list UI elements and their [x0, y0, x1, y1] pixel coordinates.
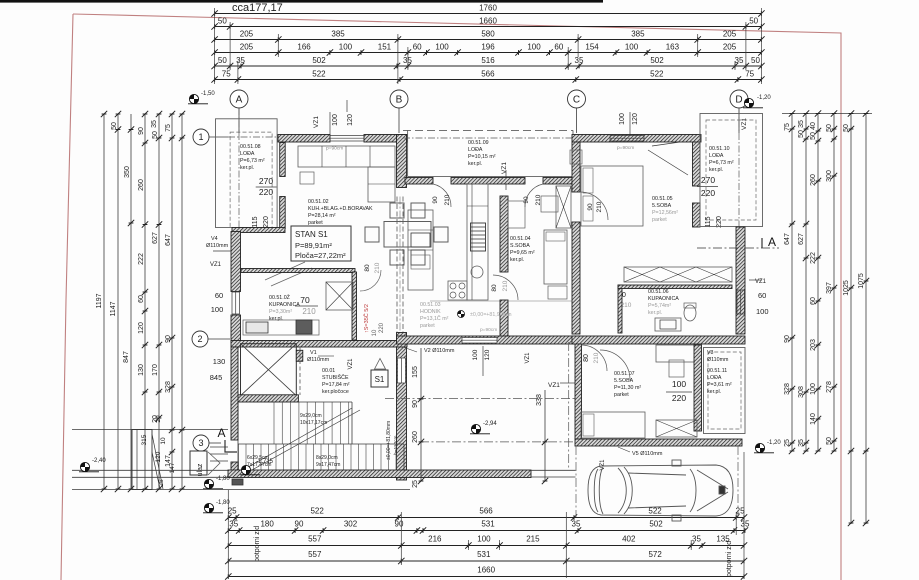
svg-text:LOĐA: LOĐA — [468, 147, 483, 153]
loggia 00.51.09 outline — [407, 130, 409, 176]
svg-text:P=12,56m²: P=12,56m² — [652, 210, 678, 216]
elevator shaft — [241, 344, 297, 396]
bathroom door arc apt1 — [360, 270, 381, 291]
svg-text:3: 3 — [198, 438, 203, 448]
bath partition — [618, 285, 622, 333]
svg-text:parket: parket — [614, 392, 629, 398]
svg-text:35: 35 — [575, 56, 584, 65]
svg-text:90: 90 — [784, 335, 791, 343]
svg-text:00.51.11: 00.51.11 — [707, 368, 727, 374]
svg-text:Ø110mm: Ø110mm — [307, 357, 330, 363]
svg-text:P=17,84 m²: P=17,84 m² — [322, 382, 350, 388]
svg-text:A: A — [768, 235, 776, 249]
svg-text:VZ1: VZ1 — [741, 118, 748, 130]
left dimension block — [103, 114, 105, 489]
svg-text:196: 196 — [481, 43, 495, 52]
svg-text:522: 522 — [648, 507, 662, 516]
svg-text:25: 25 — [228, 507, 237, 516]
dim row 50/1660/50 — [215, 26, 762, 28]
svg-text:1025: 1025 — [843, 280, 850, 296]
terrace edge lines — [531, 469, 576, 471]
svg-text:Ø110mm: Ø110mm — [206, 243, 229, 249]
bottom dim row 35/180/90/302/531/502/35 — [228, 530, 745, 532]
svg-text:75: 75 — [745, 70, 754, 79]
terrace dash-dot line 1 — [385, 398, 575, 400]
loggia 00.51.11 — [704, 348, 746, 434]
door swing diagonals living room — [265, 262, 305, 280]
elevator south wall hatched — [237, 395, 298, 402]
svg-text:VZ1: VZ1 — [348, 358, 354, 370]
svg-text:50: 50 — [826, 437, 833, 445]
svg-text:VZ1: VZ1 — [525, 352, 531, 364]
grid axis markers 1 2 3 — [193, 129, 209, 145]
svg-text:C: C — [573, 95, 580, 106]
svg-text:100: 100 — [435, 43, 449, 52]
svg-text:50: 50 — [751, 56, 760, 65]
svg-text:140: 140 — [810, 413, 817, 425]
entry steps — [232, 479, 243, 485]
svg-text:P=3,30m²: P=3,30m² — [269, 309, 292, 315]
svg-text:90: 90 — [412, 400, 419, 408]
window in east wall — [737, 290, 745, 314]
svg-text:90: 90 — [295, 520, 304, 529]
svg-text:LOĐA: LOĐA — [709, 153, 724, 159]
svg-text:100: 100 — [211, 305, 224, 314]
svg-text:VZ1: VZ1 — [501, 162, 508, 174]
svg-text:338: 338 — [536, 394, 543, 406]
svg-text:350: 350 — [124, 166, 131, 178]
svg-text:220: 220 — [672, 393, 686, 403]
benchmark -2.40 far left — [79, 462, 99, 471]
wall right of loggia 08 — [280, 143, 286, 177]
svg-text:P=10,15 m²: P=10,15 m² — [468, 154, 496, 160]
svg-text:50: 50 — [152, 131, 159, 139]
terrace dash-dot line 2 — [420, 441, 575, 443]
svg-text:V5 Ø110mm: V5 Ø110mm — [632, 451, 663, 457]
svg-text:522: 522 — [310, 507, 324, 516]
svg-text:302: 302 — [344, 520, 358, 529]
svg-text:260: 260 — [412, 431, 419, 443]
east outer wall — [736, 227, 745, 334]
svg-text:557: 557 — [308, 550, 322, 559]
svg-text:531: 531 — [477, 550, 491, 559]
svg-text:80: 80 — [583, 354, 590, 362]
svg-text:ker.pl.: ker.pl. — [648, 310, 662, 316]
svg-text:130: 130 — [213, 357, 226, 366]
svg-text:75: 75 — [165, 124, 172, 132]
svg-text:1660: 1660 — [479, 17, 497, 26]
svg-text:210: 210 — [444, 194, 451, 205]
svg-text:↑S=35Č 5/2: ↑S=35Č 5/2 — [363, 304, 370, 333]
svg-text:25: 25 — [158, 479, 165, 487]
svg-text:216: 216 — [428, 535, 442, 544]
svg-text:151: 151 — [378, 43, 392, 52]
svg-text:25: 25 — [412, 480, 419, 488]
svg-text:A: A — [217, 426, 225, 440]
svg-text:220: 220 — [263, 216, 270, 228]
diag lines (door swing) top — [648, 150, 688, 175]
bottom wall east wing — [572, 336, 745, 344]
grid line A — [238, 108, 240, 230]
svg-text:LOĐA: LOĐA — [240, 151, 255, 157]
svg-text:1660: 1660 — [477, 566, 495, 575]
svg-text:KUPAONICA: KUPAONICA — [648, 296, 679, 302]
svg-text:10x17,17cm: 10x17,17cm — [300, 420, 327, 426]
window in west wall 60/100 — [232, 292, 240, 314]
svg-text:100: 100 — [672, 379, 686, 389]
svg-text:KUH.+BLAG.+D.BORAVAK: KUH.+BLAG.+D.BORAVAK — [308, 206, 373, 212]
svg-text:20: 20 — [155, 415, 162, 423]
svg-text:60: 60 — [554, 43, 563, 52]
svg-text:50: 50 — [218, 17, 227, 26]
svg-text:100: 100 — [477, 535, 491, 544]
svg-text:p=90cm: p=90cm — [617, 145, 634, 151]
svg-text:S.SOBA: S.SOBA — [510, 243, 530, 249]
wardrobe X s.soba04 — [556, 186, 571, 228]
elevator east piers — [296, 350, 303, 361]
svg-text:ker.pl.: ker.pl. — [468, 161, 482, 167]
dim row 50/35/502/35/516/35/502/35/50 — [215, 65, 762, 67]
svg-text:P=13,1Č m²: P=13,1Č m² — [420, 315, 449, 322]
entrance ulaz — [190, 451, 207, 475]
svg-text:402: 402 — [622, 535, 636, 544]
svg-text:00.51.04: 00.51.04 — [510, 236, 531, 242]
svg-text:502: 502 — [650, 56, 664, 65]
svg-text:35: 35 — [798, 120, 805, 128]
svg-text:ker.pl.: ker.pl. — [707, 389, 721, 395]
svg-text:-1,715: -1,715 — [256, 459, 274, 465]
wall below loggia 09 — [405, 178, 433, 185]
svg-text:328: 328 — [784, 383, 791, 395]
svg-text:cca177,17: cca177,17 — [232, 2, 283, 14]
car body — [588, 460, 733, 521]
closet with X — [624, 267, 732, 282]
door arc east wing — [580, 192, 608, 220]
svg-text:210: 210 — [596, 201, 603, 212]
elevator door dashed — [299, 347, 301, 395]
svg-text:502: 502 — [649, 520, 663, 529]
small table — [300, 172, 314, 184]
svg-text:00.51.07: 00.51.07 — [614, 371, 635, 377]
doors 90/210 from loggia — [433, 184, 451, 207]
svg-text:D: D — [735, 95, 742, 106]
svg-text:P=3,61 m²: P=3,61 m² — [707, 382, 732, 388]
svg-text:385: 385 — [631, 30, 645, 39]
svg-text:±0,00=+81,90mm: ±0,00=+81,90mm — [470, 312, 512, 318]
terrace dim line — [420, 348, 422, 481]
svg-text:572: 572 — [648, 550, 662, 559]
svg-text:-2,40: -2,40 — [92, 458, 106, 464]
svg-text:90: 90 — [138, 127, 145, 135]
svg-text:-2,94: -2,94 — [483, 421, 497, 427]
svg-text:00.51.09: 00.51.09 — [468, 140, 489, 146]
svg-text:60: 60 — [413, 43, 422, 52]
svg-text:120: 120 — [347, 114, 354, 126]
svg-text:60: 60 — [215, 291, 223, 300]
svg-text:531: 531 — [481, 520, 495, 529]
wall between hodnik and s.soba04 — [500, 196, 508, 272]
svg-text:120: 120 — [484, 349, 491, 360]
toilet — [684, 305, 696, 321]
svg-text:1760: 1760 — [479, 4, 497, 13]
dim row 205/385/580/385/205 — [215, 39, 762, 41]
svg-text:522: 522 — [650, 70, 664, 79]
svg-text:VZ1: VZ1 — [600, 459, 606, 471]
svg-text:203: 203 — [810, 339, 817, 351]
svg-text:-1,80: -1,80 — [216, 500, 230, 506]
benchmark -1.715 — [240, 465, 260, 474]
benchmark -2.94 — [470, 424, 490, 433]
grid axis markers A B C D — [230, 90, 248, 108]
svg-text:ker.pl.: ker.pl. — [510, 257, 524, 263]
stairs — [239, 402, 397, 470]
svg-text:35: 35 — [798, 439, 805, 447]
svg-text:35: 35 — [572, 520, 581, 529]
parking bay dash-dot — [575, 446, 577, 517]
bottom dim row 557/531/572 — [228, 560, 744, 562]
bottom wall / parapet — [228, 470, 531, 478]
svg-text:115: 115 — [252, 216, 259, 227]
svg-text:50: 50 — [810, 132, 817, 140]
svg-text:166: 166 — [297, 43, 311, 52]
svg-text:260: 260 — [810, 174, 817, 186]
svg-text:100: 100 — [339, 43, 353, 52]
svg-text:VZ1: VZ1 — [313, 116, 320, 128]
svg-text:205: 205 — [240, 30, 254, 39]
svg-text:580: 580 — [481, 30, 495, 39]
svg-text:75: 75 — [784, 123, 791, 131]
svg-text:P=9,65 m²: P=9,65 m² — [510, 250, 535, 256]
S1 box — [371, 370, 388, 387]
svg-text:90: 90 — [395, 520, 404, 529]
svg-text:90: 90 — [523, 196, 530, 204]
svg-text:60: 60 — [810, 297, 817, 305]
section line vertical — [568, 342, 570, 470]
loggia 00.51.08 outer slab — [216, 119, 278, 228]
svg-text:1: 1 — [198, 132, 203, 142]
svg-text:ker.pl.: ker.pl. — [240, 165, 254, 171]
svg-text:522: 522 — [312, 70, 326, 79]
stove — [471, 223, 486, 251]
sink2 — [655, 318, 681, 331]
svg-text:VZ1: VZ1 — [210, 262, 222, 268]
cooktop — [448, 281, 467, 300]
svg-text:00.51.05: 00.51.05 — [652, 196, 673, 202]
svg-text:215: 215 — [526, 535, 540, 544]
wardrobe room07 — [656, 420, 697, 437]
svg-text:270: 270 — [259, 176, 273, 186]
svg-text:2: 2 — [197, 334, 202, 344]
svg-text:100: 100 — [527, 43, 541, 52]
svg-text:potporni zid: potporni zid — [726, 541, 733, 577]
loggia 00.51.10 outer — [700, 114, 763, 227]
svg-text:P=11,30 m²: P=11,30 m² — [614, 385, 641, 391]
roof triangle above S1 — [375, 359, 386, 370]
dining table — [384, 222, 431, 248]
benchmark -1.80 a — [203, 479, 223, 488]
svg-text:50: 50 — [111, 122, 118, 130]
central wall on axis B — [397, 135, 407, 188]
door 100/220 room07 — [600, 350, 630, 380]
svg-text:KUPAONICA: KUPAONICA — [269, 302, 300, 308]
outside entrance steps — [210, 446, 228, 448]
svg-text:p=90cm: p=90cm — [326, 146, 343, 152]
svg-text:35: 35 — [735, 56, 744, 65]
svg-text:P=28,14 m²: P=28,14 m² — [308, 213, 336, 219]
svg-text:205: 205 — [723, 30, 737, 39]
svg-text:75: 75 — [222, 70, 231, 79]
svg-text:P=6,73 m²: P=6,73 m² — [709, 160, 734, 166]
svg-text:100: 100 — [810, 383, 817, 395]
benchmark -1.80 b — [203, 503, 223, 512]
svg-text:00.51.08: 00.51.08 — [240, 144, 261, 150]
window in stair hall east wall — [398, 358, 406, 383]
svg-text:-1,80: -1,80 — [216, 476, 230, 482]
svg-text:00.51.06: 00.51.06 — [648, 289, 669, 295]
svg-text:60: 60 — [138, 295, 145, 303]
svg-text:385: 385 — [331, 30, 345, 39]
kitchen counter apt2 — [467, 184, 488, 300]
svg-text:p=90cm: p=90cm — [480, 327, 497, 333]
svg-text:9x17,47cm: 9x17,47cm — [316, 462, 340, 468]
svg-text:100: 100 — [756, 307, 769, 316]
grid line D — [738, 108, 740, 230]
top edge black strip — [0, 0, 603, 3]
svg-text:627: 627 — [152, 232, 159, 244]
svg-text:50: 50 — [798, 130, 805, 138]
loggia 00.51.08 inner dashed — [230, 132, 272, 227]
top wall west wing — [278, 135, 330, 143]
kitchen sink — [471, 266, 483, 278]
wall between apt1 and stairwell — [231, 341, 407, 348]
svg-text:397: 397 — [826, 282, 833, 294]
svg-text:00.51.0Ž: 00.51.0Ž — [269, 293, 291, 301]
bottom dim row 557/216/100/215/402/35/135 — [228, 545, 744, 547]
svg-text:300: 300 — [826, 170, 833, 182]
west wall room 07 — [575, 344, 582, 439]
svg-text:205: 205 — [723, 43, 737, 52]
svg-text:222: 222 — [138, 253, 145, 265]
svg-text:100: 100 — [472, 349, 479, 360]
west outer wall — [231, 232, 241, 292]
door 270/220 loggia 10 — [697, 186, 718, 188]
benchmark -1.20 bottom right — [754, 443, 774, 452]
svg-text:35: 35 — [741, 520, 750, 529]
svg-text:±0,00=+81,80mm: ±0,00=+81,80mm — [386, 421, 392, 460]
svg-text:90: 90 — [165, 335, 172, 343]
east wing west wall — [572, 142, 580, 192]
svg-text:ker.pl.: ker.pl. — [269, 316, 283, 322]
svg-text:647: 647 — [784, 233, 791, 245]
svg-text:5.SOBA: 5.SOBA — [652, 203, 672, 209]
sofa L-shape — [298, 146, 395, 167]
svg-text:-1,20: -1,20 — [757, 95, 771, 101]
svg-text:278: 278 — [826, 381, 833, 393]
svg-text:ulaz: ulaz — [197, 463, 204, 476]
svg-text:100: 100 — [625, 43, 639, 52]
svg-text:1075: 1075 — [858, 273, 865, 289]
door 270/220 loggia 08 — [256, 186, 277, 188]
svg-text:35: 35 — [229, 520, 238, 529]
dim 338 — [544, 390, 546, 481]
svg-text:210: 210 — [374, 262, 381, 273]
svg-text:potporni zid: potporni zid — [254, 526, 261, 562]
nightstand — [669, 360, 684, 377]
svg-text:HODNIK: HODNIK — [420, 309, 441, 315]
svg-text:516: 516 — [481, 56, 495, 65]
nightstands apt2 — [541, 196, 558, 212]
right dimension block — [791, 113, 793, 451]
top wall east wing — [572, 135, 701, 143]
svg-text:270: 270 — [701, 175, 715, 185]
svg-text:220: 220 — [701, 188, 715, 198]
svg-text:1147: 1147 — [110, 301, 117, 316]
wall loggia10 — [693, 142, 701, 186]
west wall of stair block — [231, 347, 238, 440]
bed apt2 — [544, 230, 567, 284]
svg-text:220: 220 — [259, 187, 273, 197]
svg-text:parket: parket — [308, 220, 323, 226]
svg-text:80: 80 — [491, 284, 498, 292]
svg-text:00.51.03: 00.51.03 — [420, 302, 441, 308]
corridor boundary line — [430, 300, 573, 302]
window break in apt2 bottom wall — [462, 338, 497, 344]
svg-text:222: 222 — [810, 252, 817, 264]
svg-text:00.51.10: 00.51.10 — [709, 146, 730, 152]
svg-text:V4: V4 — [211, 236, 218, 242]
door arc 80/210 to s.soba04 — [493, 275, 518, 300]
svg-text:A: A — [236, 95, 243, 106]
svg-text:Ø110mm: Ø110mm — [707, 357, 729, 363]
svg-text:35: 35 — [236, 56, 245, 65]
svg-text:Ploča=27,22m²: Ploča=27,22m² — [295, 251, 346, 260]
svg-text:50: 50 — [218, 56, 227, 65]
svg-text:V1: V1 — [310, 350, 317, 356]
svg-text:163: 163 — [666, 43, 680, 52]
bottom dim row 1660 — [228, 576, 744, 578]
svg-text:S1: S1 — [375, 375, 385, 384]
bottom dim row 25/522/566/522/25 — [228, 517, 744, 519]
svg-text:parket: parket — [420, 323, 435, 329]
svg-text:00.51.02: 00.51.02 — [308, 199, 329, 205]
svg-text:147: 147 — [169, 462, 176, 473]
dim row 1760 — [215, 13, 762, 15]
svg-text:P=6,73 m²: P=6,73 m² — [240, 158, 265, 164]
retaining wall / ramp box 315 — [132, 430, 152, 490]
svg-text:566: 566 — [481, 70, 495, 79]
svg-text:h=110cm: h=110cm — [393, 435, 399, 455]
svg-text:647: 647 — [165, 234, 172, 246]
window in east top wall — [610, 136, 644, 142]
bottom wall room 07 — [575, 439, 742, 446]
svg-text:210: 210 — [593, 352, 600, 363]
svg-text:V2 Ø110mm: V2 Ø110mm — [424, 348, 455, 354]
svg-text:155: 155 — [412, 366, 419, 378]
svg-text:parket: parket — [652, 217, 667, 223]
central wall dashed projection — [396, 197, 398, 333]
benchmark -1.50 left of A — [188, 94, 208, 103]
loggia 10 dashed — [706, 120, 756, 220]
svg-text:8x29,0cm: 8x29,0cm — [316, 455, 338, 461]
svg-text:-1,20: -1,20 — [767, 440, 781, 446]
svg-text:B: B — [396, 95, 403, 106]
svg-text:205: 205 — [240, 43, 254, 52]
svg-text:170: 170 — [152, 364, 159, 376]
svg-text:220: 220 — [379, 322, 385, 333]
svg-text:ker.pl.: ker.pl. — [709, 167, 723, 173]
svg-text:35: 35 — [692, 535, 701, 544]
svg-text:35: 35 — [151, 120, 158, 128]
